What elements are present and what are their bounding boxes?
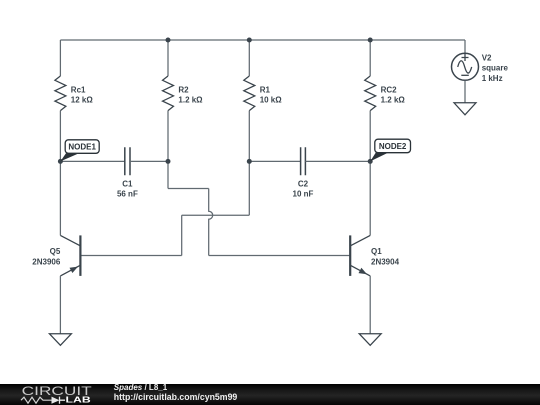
wire R1 node to C2: [249, 160, 300, 162]
node B junction dot rail R1: [247, 38, 252, 43]
wire top rail: [60, 39, 465, 41]
wire V2 top lead: [464, 40, 466, 54]
wire NODE1 to Q5 collector: [59, 161, 61, 235]
wire R1 top lead: [248, 40, 250, 76]
svg-text:2N3906: 2N3906: [32, 257, 61, 266]
wire Q1 emitter down: [369, 276, 371, 334]
wire C2 to NODE2: [305, 160, 370, 162]
svg-text:10 nF: 10 nF: [293, 190, 314, 199]
wire vertical with hop over: [209, 189, 213, 256]
svg-text:LAB: LAB: [66, 395, 91, 405]
svg-text:V2: V2: [482, 53, 492, 62]
svg-text:12 kΩ: 12 kΩ: [71, 96, 94, 105]
wire R2 top lead: [167, 40, 169, 76]
wire to Q1 base: [209, 255, 350, 257]
wire RC2 bottom to NODE2: [369, 111, 371, 162]
svg-text:Q5: Q5: [50, 247, 61, 256]
node junction dot C1-R2: [166, 159, 171, 164]
resistor R1: [244, 76, 255, 111]
svg-text:1.2 kΩ: 1.2 kΩ: [381, 96, 406, 105]
transistor Q1: [350, 235, 370, 276]
svg-text:56 nF: 56 nF: [117, 190, 138, 199]
svg-text:R1: R1: [260, 86, 271, 95]
svg-text:R2: R2: [178, 86, 189, 95]
ground Q5: [49, 334, 71, 346]
svg-text:Q1: Q1: [371, 247, 382, 256]
node junction dot R1-C2: [247, 159, 252, 164]
svg-text:C2: C2: [298, 180, 309, 189]
node NODE1 junction dot: [58, 159, 63, 164]
node A junction dot rail R2: [166, 38, 171, 43]
svg-text:Rc1: Rc1: [71, 86, 86, 95]
wire cross horizontal upper: [168, 188, 209, 190]
ground Q1: [359, 334, 381, 346]
svg-text:Spades / L8_1: Spades / L8_1: [114, 383, 168, 392]
wire R2 bottom to node: [167, 111, 169, 162]
svg-text:RC2: RC2: [381, 86, 398, 95]
svg-text:C1: C1: [122, 180, 133, 189]
svg-text:NODE1: NODE1: [68, 143, 96, 152]
voltage source V2: [452, 53, 479, 80]
footer bar: [0, 384, 540, 405]
resistor Rc1: [55, 76, 66, 111]
svg-text:http://circuitlab.com/cyn5m99: http://circuitlab.com/cyn5m99: [114, 392, 238, 402]
wire V2 bottom lead: [464, 81, 466, 103]
wire vertical to base row: [181, 215, 183, 255]
wire R1 node down: [248, 161, 250, 215]
wire NODE1 to C1: [60, 160, 124, 162]
node NODE2 junction dot: [368, 159, 373, 164]
wire NODE2 to Q1 collector: [369, 161, 371, 235]
wire Rc1 bottom to NODE1: [59, 111, 61, 162]
wire Rc1 top lead: [59, 40, 61, 76]
svg-text:square: square: [482, 64, 509, 73]
svg-text:2N3904: 2N3904: [371, 257, 400, 266]
wire R1 bottom to node: [248, 111, 250, 162]
wire RC2 top lead: [369, 40, 371, 76]
wire Q5 emitter down: [59, 276, 61, 334]
logo resistor zigzag: [21, 397, 52, 403]
transistor Q5: [60, 235, 80, 276]
capacitor C1: [125, 147, 130, 175]
logo diode: [52, 397, 60, 404]
ground V2: [454, 103, 476, 115]
wire cross horizontal lower: [182, 214, 250, 216]
svg-text:10 kΩ: 10 kΩ: [260, 96, 283, 105]
svg-text:1 kHz: 1 kHz: [482, 74, 503, 83]
node NODE2 flag: [370, 139, 410, 161]
resistor R2: [163, 76, 174, 111]
wire R2 node down: [167, 161, 169, 188]
wire to Q5 base: [81, 255, 182, 257]
resistor RC2: [365, 76, 376, 111]
svg-text:1.2 kΩ: 1.2 kΩ: [178, 96, 203, 105]
node C junction dot rail RC2: [368, 38, 373, 43]
node NODE1 flag: [60, 140, 99, 162]
wire C1 to R2 node: [130, 160, 168, 162]
svg-text:NODE2: NODE2: [379, 142, 407, 151]
capacitor C2: [301, 147, 306, 175]
